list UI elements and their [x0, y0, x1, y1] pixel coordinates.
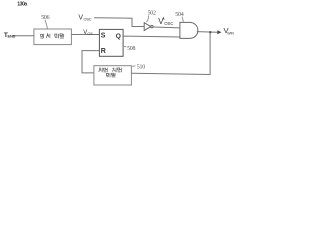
svg-text:S: S	[101, 33, 106, 40]
svg-text:END: END	[8, 34, 16, 39]
svg-text:510: 510	[137, 65, 145, 71]
svg-text:502: 502	[148, 10, 156, 16]
svg-text:OSC: OSC	[164, 21, 173, 26]
svg-text:504: 504	[175, 12, 183, 18]
svg-text:OS: OS	[87, 32, 93, 36]
svg-text:506: 506	[41, 15, 49, 21]
svg-text:508: 508	[127, 46, 135, 52]
svg-text:R: R	[101, 48, 106, 55]
svg-text:Q: Q	[116, 33, 121, 40]
svg-text:OSC: OSC	[84, 17, 92, 22]
svg-text:WIN: WIN	[227, 32, 234, 36]
svg-text:130a: 130a	[17, 2, 27, 8]
